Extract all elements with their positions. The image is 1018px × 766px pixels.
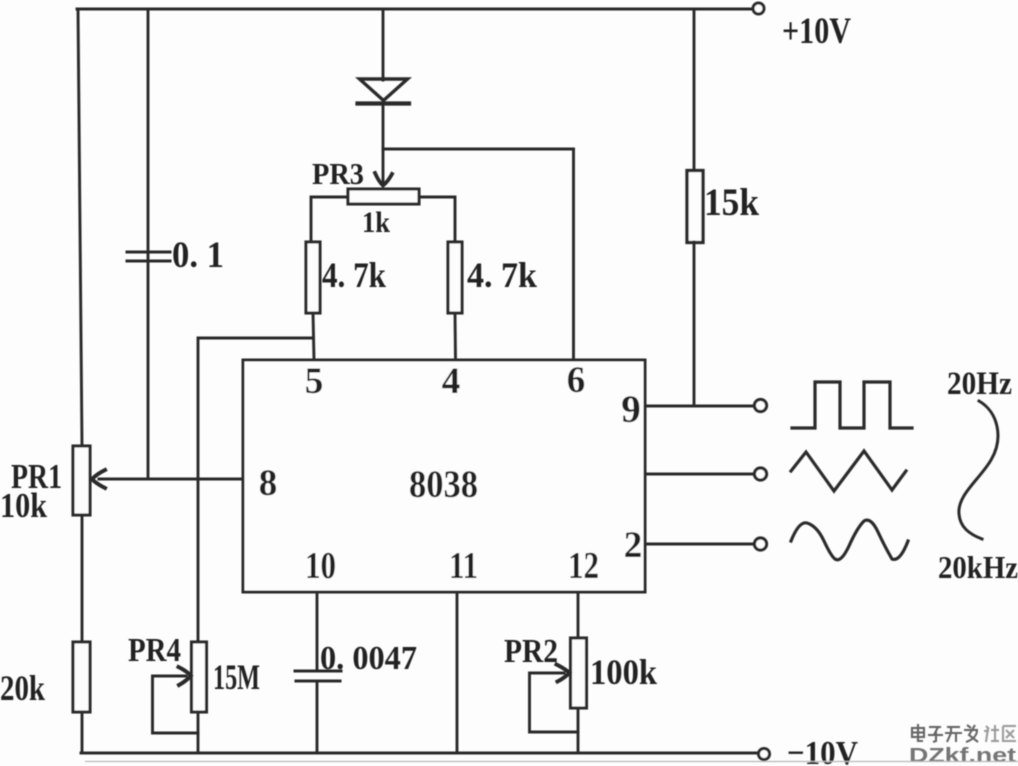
svg-text:12: 12 bbox=[568, 545, 599, 587]
wire 4.7k right bottom lead to pin4 bbox=[454, 313, 457, 360]
wire 0.1 cap top lead bbox=[147, 9, 150, 253]
wire 100k bottom lead bbox=[577, 708, 580, 753]
svg-text:1k: 1k bbox=[362, 206, 390, 239]
wire top +10V rail bbox=[77, 8, 752, 11]
wire pin10 lead bbox=[316, 592, 319, 670]
svg-text:15M: 15M bbox=[213, 657, 260, 697]
wire PR1 wiper arrow bbox=[92, 470, 105, 488]
svg-text:0. 1: 0. 1 bbox=[172, 235, 224, 276]
wire arrow to PR3 wiper bbox=[382, 149, 385, 184]
resistor R 15k body bbox=[687, 171, 703, 243]
waveform sine bbox=[791, 520, 908, 560]
capacitor C 0.0047 bbox=[295, 671, 341, 681]
wire left vertical rail bbox=[78, 9, 82, 446]
svg-text:PR4: PR4 bbox=[128, 632, 181, 669]
svg-text:PR3: PR3 bbox=[312, 156, 364, 191]
svg-text:20Hz: 20Hz bbox=[947, 366, 1012, 402]
wire PR2 wiper arrow bbox=[557, 665, 570, 682]
resistor R 20k body bbox=[73, 642, 90, 712]
scan edge bottom bbox=[85, 761, 1018, 763]
wire 4.7k left bottom lead to pin5 bbox=[313, 313, 314, 360]
svg-text:4: 4 bbox=[442, 361, 461, 402]
wire middle output bbox=[645, 473, 752, 476]
wire diode cathode to junction bbox=[382, 106, 385, 149]
svg-text:4. 7k: 4. 7k bbox=[467, 255, 537, 295]
wire PR4 wiper loop bbox=[153, 676, 199, 733]
diode D1 bbox=[358, 79, 410, 104]
wire pin9 output bbox=[645, 405, 752, 408]
wire 15k top lead bbox=[693, 9, 696, 170]
potentiometer PR3 1k body bbox=[348, 189, 419, 204]
potentiometer PR1 10k body bbox=[73, 446, 90, 515]
terminal output pin9 bbox=[754, 399, 766, 411]
potentiometer PR4 15M body bbox=[192, 642, 207, 712]
svg-text:10k: 10k bbox=[0, 486, 47, 525]
svg-text:10: 10 bbox=[305, 545, 336, 587]
wire 15k bottom lead bbox=[693, 242, 696, 406]
wire pin10 bottom lead bbox=[316, 681, 319, 753]
svg-text:20k: 20k bbox=[0, 668, 45, 708]
wire pin6 vertical bbox=[572, 149, 575, 360]
terminal +10V bbox=[753, 3, 764, 14]
terminal -10V bbox=[759, 749, 770, 760]
svg-text:5: 5 bbox=[305, 361, 324, 402]
wire pin12 lead bbox=[577, 592, 580, 638]
wire bottom -10V rail bbox=[81, 752, 758, 755]
svg-text:4. 7k: 4. 7k bbox=[322, 255, 386, 295]
svg-text:+10V: +10V bbox=[782, 11, 851, 52]
svg-text:100k: 100k bbox=[590, 652, 657, 692]
svg-text:15k: 15k bbox=[704, 181, 759, 224]
watermark chinese 电子开发社区 drawn bbox=[912, 724, 978, 742]
svg-text:20kHz: 20kHz bbox=[938, 549, 1018, 585]
svg-text:6: 6 bbox=[567, 360, 586, 401]
wire junction to pin6 horizontal bbox=[383, 148, 574, 151]
wire 15M bottom lead bbox=[197, 712, 200, 753]
capacitor C 0.1 bbox=[127, 252, 170, 261]
potentiometer PR2 100k body bbox=[571, 638, 587, 708]
svg-text:0. 0047: 0. 0047 bbox=[320, 640, 417, 677]
wire diode anode lead bbox=[382, 9, 385, 80]
wire PR3 right lead bbox=[419, 197, 455, 242]
svg-text:11: 11 bbox=[449, 545, 478, 587]
svg-text:8: 8 bbox=[259, 463, 278, 504]
waveform triangle bbox=[791, 451, 906, 491]
op-amp U1 8038 box bbox=[243, 360, 645, 592]
svg-text:8038: 8038 bbox=[409, 463, 478, 506]
terminal output middle bbox=[754, 468, 766, 480]
terminal output pin2 bbox=[754, 538, 766, 550]
wire PR2 wiper loop bbox=[530, 673, 579, 732]
wire pin8 horizontal bbox=[99, 478, 243, 481]
svg-text:PR2: PR2 bbox=[504, 633, 558, 670]
waveform square bbox=[792, 382, 912, 428]
svg-text:9: 9 bbox=[621, 388, 641, 431]
wire PR3 left lead bbox=[311, 197, 348, 242]
wire 0.1 cap bottom lead bbox=[147, 253, 150, 479]
svg-text:DZkf.net: DZkf.net bbox=[909, 745, 1016, 766]
resistor R 4.7k right body bbox=[448, 242, 462, 313]
wire branch y342 to 15M column bbox=[198, 338, 314, 642]
svg-text:2: 2 bbox=[624, 525, 643, 566]
wire pin2 output bbox=[645, 543, 752, 546]
wire PR4 wiper arrow bbox=[179, 667, 192, 685]
brace frequency range bbox=[959, 401, 998, 539]
resistor R 4.7k left body bbox=[306, 242, 320, 313]
wire pin11 lead bbox=[456, 592, 459, 753]
